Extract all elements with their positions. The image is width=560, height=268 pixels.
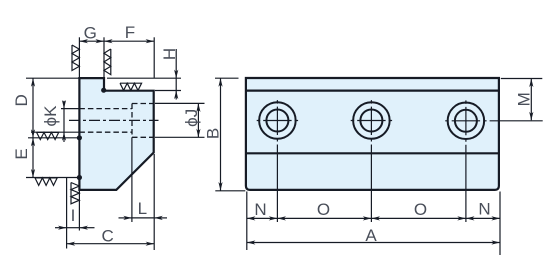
svg-text:G: G <box>84 24 97 43</box>
svg-text:B: B <box>204 128 223 139</box>
svg-text:ϕJ: ϕJ <box>182 109 201 127</box>
svg-text:C: C <box>101 227 113 246</box>
svg-text:A: A <box>365 226 377 245</box>
svg-text:N: N <box>254 200 266 219</box>
svg-text:N: N <box>478 200 490 219</box>
svg-text:F: F <box>125 23 135 42</box>
svg-text:O: O <box>414 200 427 219</box>
svg-text:ϕK: ϕK <box>41 105 60 127</box>
svg-text:L: L <box>138 199 147 218</box>
svg-text:M: M <box>515 92 534 106</box>
svg-text:D: D <box>12 94 31 106</box>
svg-text:I: I <box>71 206 76 225</box>
svg-text:E: E <box>12 148 31 159</box>
svg-text:O: O <box>317 200 330 219</box>
svg-text:H: H <box>160 48 179 60</box>
